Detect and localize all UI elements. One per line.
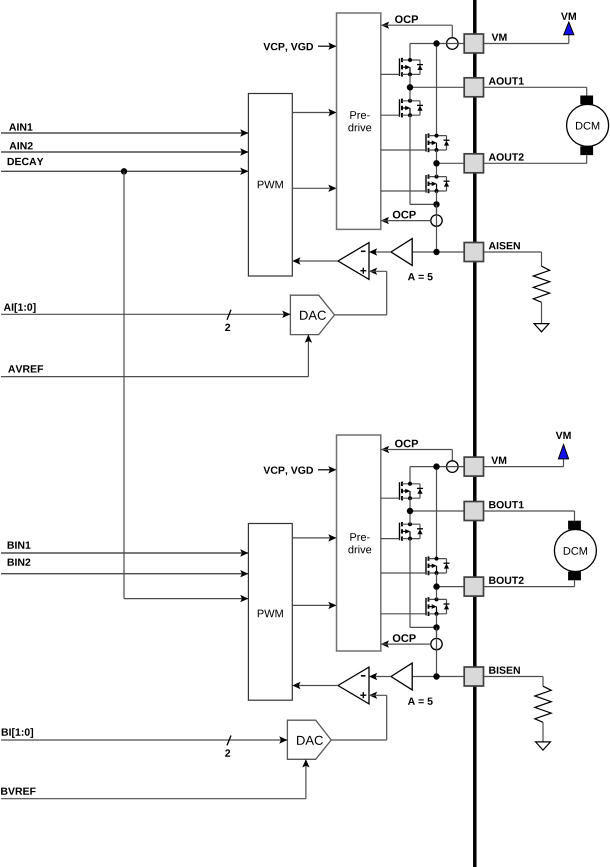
- bus width slash B: [227, 736, 231, 746]
- Pre-drive block A: [337, 13, 381, 229]
- PWM block B: [248, 524, 292, 701]
- pad AOUT2: [464, 154, 483, 173]
- gate wire Q2 A: [381, 114, 400, 116]
- label BI[1:0]: [2, 728, 33, 738]
- wire amp to comparator B: [369, 673, 391, 680]
- label VM supply A: [561, 13, 576, 20]
- wire AOUT2 node: [437, 150, 465, 177]
- junction VM A: [433, 40, 439, 46]
- wire AISEN node: [412, 204, 464, 252]
- wire BVREF: [1, 759, 310, 798]
- DC motor DCM B: [554, 530, 596, 572]
- junction BOUT1: [407, 508, 413, 514]
- label DECAY: [8, 158, 44, 165]
- current sense circle bottom A: [431, 215, 442, 226]
- label AIN2: [9, 142, 32, 149]
- motor brush bottom B: [568, 572, 581, 581]
- gate wire Q1 B: [381, 497, 400, 499]
- label OCP top B: [395, 440, 418, 448]
- sense resistor A: [484, 252, 550, 324]
- wire comparator output B: [292, 682, 338, 689]
- pad BISEN: [464, 667, 483, 686]
- wire PWM to Pre-drive 2 B: [292, 602, 336, 609]
- wire AOUT2 to motor: [484, 155, 587, 163]
- wire OCP bottom B: [381, 640, 431, 647]
- wire AVREF: [1, 335, 312, 377]
- label VM pad B: [491, 457, 506, 464]
- wire DECAY: [1, 168, 248, 175]
- gate wire Q3 B: [381, 572, 426, 574]
- pad VM B: [464, 457, 483, 476]
- pad VM A: [464, 34, 483, 53]
- label BOUT1: [489, 501, 524, 508]
- wire AIN2: [1, 148, 248, 155]
- DAC block B: [287, 720, 331, 759]
- wire PWM to Pre-drive 2 A: [292, 185, 336, 192]
- wire BOUT1 to motor: [484, 511, 575, 521]
- transistor high-side 1 B: [400, 482, 424, 501]
- wire VM to supply A: [484, 35, 569, 44]
- label bus width 2 A: [225, 324, 230, 331]
- gate wire Q4 A: [381, 190, 426, 192]
- VM power rail (device boundary): [473, 0, 477, 867]
- pad AOUT1: [464, 78, 483, 97]
- label A = 5 A: [408, 273, 433, 280]
- label bus width 2 B: [225, 749, 230, 756]
- wire OCP bottom A: [381, 217, 431, 224]
- label OCP top A: [395, 15, 418, 23]
- wire BI[1:0]: [1, 736, 287, 743]
- wire amp to comparator A: [369, 248, 391, 255]
- label VCP, VGD A: [263, 43, 313, 52]
- wire comparator plus input A: [335, 268, 387, 315]
- VM supply arrow B: [558, 445, 568, 459]
- wire AOUT1 node: [410, 74, 464, 100]
- gate wire Q1 A: [381, 73, 400, 75]
- label AISEN: [489, 242, 520, 249]
- sense amplifier A=5 A: [391, 239, 412, 266]
- comparator A: [338, 243, 369, 280]
- wire BIN2: [1, 570, 248, 577]
- wire AI[1:0]: [1, 311, 290, 318]
- label AIN1: [9, 123, 32, 130]
- wire PWM to Pre-drive 1 A: [292, 109, 336, 116]
- transistor low-side 1 B: [400, 522, 424, 541]
- motor brush bottom A: [580, 146, 593, 155]
- junction DECAY: [121, 168, 127, 174]
- wire VCP/VGD B: [318, 466, 337, 473]
- transistor low-side 1 A: [400, 99, 424, 118]
- ground A: [534, 324, 549, 332]
- current sense circle top A: [447, 38, 459, 50]
- pad BOUT2: [464, 577, 483, 596]
- gate wire Q4 B: [381, 613, 426, 615]
- sense resistor B: [484, 677, 552, 742]
- DC motor DCM A: [567, 104, 609, 146]
- gate wire Q2 B: [381, 538, 400, 540]
- junction VM B: [433, 463, 439, 469]
- junction common source A: [433, 201, 439, 207]
- wire BOUT2 node: [437, 573, 465, 599]
- wire BOUT2 to motor: [484, 580, 575, 586]
- label BIN2: [8, 558, 31, 565]
- label AVREF: [8, 365, 43, 372]
- wire BISEN node: [412, 627, 464, 676]
- label A = 5 B: [408, 698, 433, 705]
- current sense circle bottom B: [431, 638, 442, 649]
- label AOUT1: [489, 77, 524, 84]
- gate wire Q3 A: [381, 149, 426, 151]
- VM supply arrow A: [564, 22, 574, 35]
- label VCP, VGD B: [263, 466, 313, 475]
- wire PWM to Pre-drive 1 B: [292, 534, 336, 541]
- wire VM node A: [410, 44, 464, 136]
- bus width slash A: [227, 310, 231, 320]
- wire OCP top A: [381, 22, 452, 38]
- junction AISEN: [433, 249, 439, 255]
- label VM pad A: [492, 34, 507, 41]
- junction common source B: [433, 624, 439, 630]
- comparator B: [338, 667, 369, 704]
- wire OCP top B: [381, 446, 452, 461]
- sense amplifier A=5 B: [391, 663, 412, 690]
- wire AIN1: [1, 129, 248, 136]
- label VM supply B: [556, 432, 571, 439]
- label BVREF: [1, 788, 35, 795]
- wire BIN1: [1, 549, 248, 556]
- wire VM node B: [410, 467, 464, 559]
- label OCP bottom B: [393, 634, 416, 642]
- wire AOUT1 to motor: [484, 87, 587, 95]
- junction AOUT1: [407, 84, 413, 90]
- label BIN1: [8, 541, 31, 548]
- junction BISEN: [433, 673, 439, 679]
- wire comparator output A: [292, 257, 338, 264]
- ground B: [536, 742, 551, 750]
- label AI[1:0]: [4, 303, 36, 313]
- transistor high-side 2 A: [426, 133, 450, 152]
- motor brush top A: [580, 96, 593, 105]
- wire BOUT1 node: [410, 498, 464, 524]
- wire common source B: [410, 539, 437, 639]
- motor brush top B: [568, 521, 581, 530]
- wire DECAY to PWM B: [124, 171, 248, 602]
- label OCP bottom A: [393, 211, 416, 219]
- transistor high-side 1 A: [400, 58, 424, 77]
- PWM block A: [248, 94, 292, 277]
- DAC block A: [290, 295, 334, 334]
- current sense circle top B: [447, 461, 459, 473]
- wire VCP/VGD A: [318, 43, 337, 50]
- junction BOUT2: [433, 583, 439, 589]
- pad AISEN: [464, 243, 483, 262]
- wire comparator plus input B: [331, 692, 387, 740]
- label BOUT2: [489, 577, 523, 584]
- wire common source A: [410, 115, 437, 215]
- pad BOUT1: [464, 502, 483, 521]
- transistor low-side 2 A: [426, 174, 450, 193]
- junction AOUT2: [433, 160, 439, 166]
- Pre-drive block B: [337, 435, 381, 651]
- transistor low-side 2 B: [426, 597, 450, 616]
- label BISEN: [489, 666, 520, 673]
- label AOUT2: [489, 153, 524, 160]
- wire VM to supply B: [484, 459, 564, 467]
- transistor high-side 2 B: [426, 556, 450, 575]
